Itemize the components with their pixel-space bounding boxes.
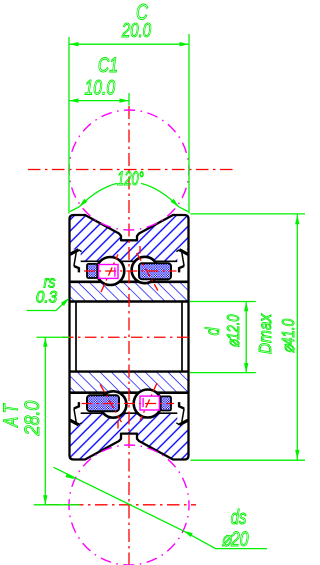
bore chamfer line left (75, 302, 77, 370)
dimension AT 28.0 line (44, 337, 46, 505)
svg-text:A T: A T (0, 403, 22, 428)
svg-text:0.3: 0.3 (36, 288, 57, 307)
bottom rope circle centerline (47, 504, 196, 506)
svg-text:⌀41.0: ⌀41.0 (279, 319, 298, 353)
svg-text:⌀12.0: ⌀12.0 (224, 314, 244, 347)
dimension C1 text (98, 53, 118, 77)
bottom ball row centerline (82, 403, 175, 405)
seal shield bottom-right (176, 402, 188, 425)
dimension C line (69, 43, 189, 45)
outer ring top hatched section (70, 215, 189, 261)
bore top line (70, 300, 189, 302)
ball B2 (134, 390, 162, 418)
svg-text:120°: 120° (117, 169, 144, 190)
svg-text:d: d (202, 327, 223, 335)
rs 0.3 chamfer label (43, 273, 55, 291)
dimension AT 28.0 extension lines (37, 336, 70, 338)
dimension d text (202, 327, 223, 335)
cage pocket phantom top row (99, 265, 118, 279)
svg-text:20.0: 20.0 (121, 19, 151, 42)
svg-text:ds: ds (231, 506, 247, 529)
inner ring shoulder line top row (70, 280, 189, 283)
dimension C1 extension line (128, 93, 130, 106)
120 degree dimension arc left (79, 183, 117, 207)
rs leader (27, 299, 68, 310)
svg-text:Dmax: Dmax (255, 313, 275, 354)
contact angle line ball B1 (100, 384, 121, 422)
contact angle line ball T2 (137, 253, 158, 291)
cage rivet section small bottom row (161, 396, 171, 410)
outer ring raceway line bottom row (81, 412, 178, 414)
inner ring upper hatched band (70, 282, 189, 302)
bore chamfer line right (181, 302, 183, 370)
120 degree slope extension right (179, 207, 188, 212)
cage pocket phantom bottom row (140, 396, 159, 410)
120 degree dimension arc right (141, 183, 179, 207)
contact angle line ball B2 (140, 383, 157, 421)
ball B1 (100, 391, 126, 417)
cage rivet section small top row (87, 264, 97, 278)
svg-text:⌀20: ⌀20 (222, 527, 250, 551)
dimension Dmax 41.0 extension lines (191, 213, 306, 215)
svg-text:10.0: 10.0 (84, 75, 115, 99)
top rope circle centerline (28, 169, 233, 171)
svg-text:28.0: 28.0 (21, 400, 45, 436)
seal shield bottom-left (70, 402, 82, 425)
dimension d 12.0 extension lines (190, 301, 256, 303)
short vertical centerline top row (139, 246, 141, 254)
ball T1 (96, 257, 124, 285)
inner ring lower hatched band (70, 372, 189, 392)
dimension Dmax text (255, 313, 275, 354)
wheel silhouette outline (70, 215, 189, 460)
svg-text:C1: C1 (98, 53, 118, 77)
ball T2 (132, 257, 158, 283)
dimension Dmax line (296, 214, 298, 460)
dimension AT text (0, 403, 22, 428)
dimension C extension lines (68, 37, 70, 214)
ds diameter leader (54, 467, 184, 531)
120 degree arc arrowheads (79, 199, 87, 207)
seal shield top-right (176, 250, 188, 273)
short vertical centerline bottom row (117, 421, 119, 429)
bottom rope circle (phantom) (69, 445, 189, 565)
wheel axis centerline (62, 336, 192, 338)
120 degree text (117, 169, 144, 190)
outer ring raceway line top row (81, 260, 178, 262)
120 degree slope extension left (70, 207, 79, 212)
outer ring bottom hatched section (70, 413, 189, 459)
seal shield top-left (70, 250, 82, 273)
top rope circle (phantom) (69, 110, 189, 230)
bore bottom line (70, 370, 189, 372)
dimension C text (136, 0, 149, 25)
cage section (crosshatched) bottom row (87, 395, 119, 411)
dimension d line (245, 302, 247, 373)
main vertical centerline (128, 106, 130, 565)
contact angle line ball T1 (101, 254, 118, 292)
top ball row centerline (84, 270, 177, 272)
cage section (crosshatched) top row (139, 263, 171, 279)
dimension C1 line (69, 100, 129, 102)
inner ring shoulder line bottom row (70, 391, 189, 394)
ds text (231, 506, 247, 529)
